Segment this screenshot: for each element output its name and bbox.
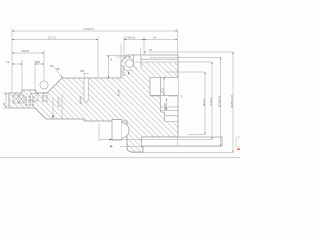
svg-text:4-M12: 4-M12 [209, 97, 213, 106]
rotated diameter labels [2, 92, 234, 108]
right vertical dims [204, 72, 206, 135]
dim 174 overall [12, 30, 178, 32]
svg-text:Ø255±0.5: Ø255±0.5 [230, 95, 234, 108]
bore inner dim [166, 99, 168, 111]
plug hole from top [134, 55, 142, 68]
svg-text:Ø240H7: Ø240H7 [218, 95, 222, 107]
threaded mounting hole in mid block [79, 79, 89, 105]
svg-text:16: 16 [6, 60, 10, 64]
svg-text:Ø11: Ø11 [161, 87, 165, 93]
leader mid [54, 67, 63, 78]
small dims y64 [12, 63, 22, 65]
svg-text:Ø162.4: Ø162.4 [45, 92, 49, 102]
ring cross-section body (hatched) [9, 55, 178, 152]
left dia dim [12, 52, 44, 54]
left vertical dim [5, 93, 7, 108]
dim 2-M6 [124, 39, 144, 41]
svg-text:B: B [144, 50, 146, 54]
plug / bolt in bottom pocket [112, 120, 129, 141]
svg-text:45°: 45° [56, 67, 61, 71]
svg-text:Ø170.6: Ø170.6 [57, 97, 61, 107]
right edge through band [177, 137, 179, 146]
seal grooves with X on left stub [13, 94, 38, 104]
gear rim band bottom (unsectioned) [142, 137, 223, 146]
mid step dim [106, 55, 127, 57]
bore step notch bottom right [150, 95, 183, 122]
thread hole dim [84, 73, 86, 78]
svg-text:Ø162js6: Ø162js6 [122, 64, 126, 76]
svg-text:Ø154.5: Ø154.5 [31, 96, 35, 106]
dimension texts [6, 27, 157, 73]
bottom divider line [0, 157, 240, 159]
dim 14 [144, 39, 178, 41]
svg-text:2-M6X1: 2-M6X1 [125, 36, 136, 40]
svg-text:M8-6H: M8-6H [79, 96, 83, 104]
ball / raceway left [40, 81, 48, 89]
svg-text:127.5: 127.5 [48, 36, 56, 40]
svg-text:Ø8: Ø8 [36, 60, 40, 64]
badge right edge [236, 137, 242, 147]
right top leader [116, 56, 131, 58]
svg-text:M8: M8 [80, 69, 84, 73]
tiny arrow on bottom line [110, 139, 113, 141]
svg-text:Ø210: Ø210 [202, 98, 206, 106]
radial hole band in right block [150, 77, 178, 95]
svg-text:Ø146: Ø146 [117, 89, 121, 96]
right extension lines [148, 51, 233, 53]
internal edge lines left [52, 98, 54, 119]
dim 127 [12, 39, 98, 41]
top recess band right block [141, 55, 178, 62]
svg-text:R5: R5 [50, 64, 54, 68]
svg-text:30: 30 [2, 102, 6, 106]
svg-text:15: 15 [149, 48, 153, 52]
dimension and extension lines [3, 29, 233, 153]
top dims extension lines [11, 29, 13, 94]
raceway tick marks [128, 72, 130, 75]
svg-text:Ø158: Ø158 [163, 103, 167, 110]
svg-text:14: 14 [153, 36, 157, 40]
svg-text:174±0.5: 174±0.5 [83, 27, 94, 31]
svg-text:Ø125: Ø125 [22, 49, 30, 53]
ball / raceway right [126, 60, 134, 68]
